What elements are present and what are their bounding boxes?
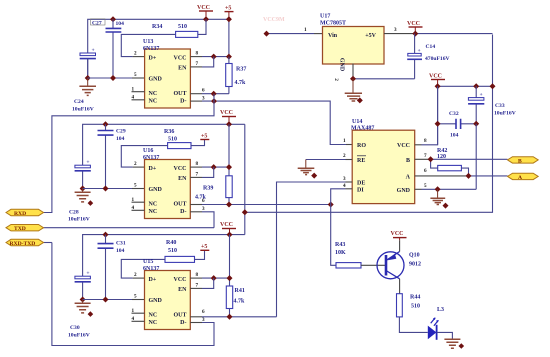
junction top rail at VCC [203,16,209,22]
wire C24 to GND rail [87,59,89,78]
svg-text:VCC: VCC [174,55,187,61]
svg-text:7: 7 [196,282,199,288]
junction OUT R39 bottom [226,202,232,208]
svg-text:2: 2 [134,272,137,278]
junction bottom rail at C31 [103,232,109,238]
svg-text:10uF16V: 10uF16V [494,111,516,117]
wire U15 EN riser [190,287,202,289]
regulator U17 MC7805T [304,14,397,82]
svg-text:104: 104 [116,248,125,254]
resistor R41 [226,286,245,317]
svg-text:NC: NC [149,312,158,318]
power flag +5 bottom [200,244,209,250]
svg-text:RO: RO [357,143,366,149]
junction VCC at C33 [473,83,479,89]
svg-text:9012: 9012 [409,262,421,268]
svg-text:7: 7 [424,153,427,159]
junction R42 B [428,156,434,162]
resistor R34 [152,19,206,37]
capacitor C29 [98,124,126,188]
wire U16 OUT to DI [190,204,202,206]
svg-text:R43: R43 [335,242,345,248]
svg-text:D+: D+ [149,55,157,61]
ground at RE [298,160,318,179]
svg-text:RXD-TXD: RXD-TXD [10,241,36,247]
svg-text:GND: GND [397,188,411,194]
svg-text:10uF16V: 10uF16V [72,107,94,113]
ground at LED [444,339,464,349]
svg-text:8: 8 [424,138,427,144]
transistor Q10 [377,252,421,279]
capacitor C14 electrolytic [407,34,449,79]
capacitor C28 electrolytic [68,160,91,223]
wire regulator input [267,33,315,35]
svg-text:C14: C14 [426,44,436,50]
svg-text:2: 2 [134,51,137,57]
wire U15 VCC pin8 [190,277,202,279]
svg-text:510: 510 [168,137,177,143]
svg-text:R40: R40 [166,240,176,246]
svg-text:VCC: VCC [429,74,442,80]
svg-text:6: 6 [202,309,205,315]
svg-text:GND: GND [339,58,345,72]
svg-text:VCC: VCC [391,231,404,237]
junction mid rail at C29 [103,121,109,127]
wire R44 to LED [399,317,427,333]
wire MAX487 VCC pin8 [415,144,422,146]
junction top rail at C27 [110,16,116,22]
svg-text:+5: +5 [201,134,207,140]
wire DE [346,181,353,183]
ground bottom stage [75,300,94,317]
svg-text:470uF16V: 470uF16V [425,56,450,62]
resistor R36 [164,129,205,149]
svg-text:+: + [480,92,483,98]
power flag VCC regulator [407,21,423,34]
svg-text:7: 7 [196,61,199,67]
resistor R40 [165,240,205,262]
wire emitter to VCC [399,240,401,251]
junction pin8 R37 top [226,54,232,60]
wire TXD net [44,227,215,229]
svg-text:R34: R34 [152,24,162,30]
svg-text:GND: GND [149,187,163,193]
svg-text:DI: DI [357,188,364,194]
svg-text:R36: R36 [164,129,174,135]
svg-text:120: 120 [437,154,446,160]
wire VCC mid rail [83,124,245,188]
svg-text:6N137: 6N137 [143,266,159,272]
svg-text:+5: +5 [201,244,207,250]
svg-text:2: 2 [134,161,137,167]
wire U13 OUT [190,93,202,95]
svg-text:+: + [86,271,89,277]
junction input end [264,31,270,37]
junction pin8 EN riser bottom [211,275,217,281]
svg-text:U17: U17 [320,14,330,20]
svg-text:MC7805T: MC7805T [320,21,346,27]
svg-text:10K: 10K [335,250,346,256]
svg-text:OUT: OUT [173,202,186,208]
svg-text:U13: U13 [143,39,153,45]
svg-text:GND: GND [149,77,163,83]
svg-text:NC: NC [149,201,158,207]
junction OUT riser [211,91,217,97]
wire VCC column into pin8 bottom [229,235,231,286]
ground under C24 [79,78,96,95]
wire U15 D- loop [190,322,202,324]
ground under regulator [345,79,363,104]
capacitor C31 [98,235,126,300]
junction VCC at trunk [490,83,496,89]
svg-text:VCC9M: VCC9M [263,17,285,23]
wire VCC bottom rail [83,235,245,300]
wire U13 VCC pin8 [190,56,202,58]
svg-text:8: 8 [196,51,199,57]
wire U13 D- to MAX487 RO [190,100,202,102]
svg-text:Q10: Q10 [409,253,420,259]
junction C29 bottom [103,186,109,192]
ground at MAX487 GND [430,189,448,208]
wire MAX487 GND pin5 [415,188,422,190]
svg-text:R37: R37 [236,67,246,73]
wire top VCC rail [88,19,229,78]
opto-coupler U15 [132,259,206,330]
wire regulator GND net [352,64,354,79]
svg-text:D-: D- [180,99,186,105]
NC stub pins U15 [132,313,145,321]
svg-text:7: 7 [196,171,199,177]
wire VCC distribution right [438,85,493,87]
svg-text:1: 1 [343,138,346,144]
svg-text:6N137: 6N137 [143,155,159,161]
svg-text:5: 5 [134,72,137,78]
svg-text:VCC: VCC [407,21,420,27]
svg-text:R44: R44 [410,295,420,301]
junction regulator gnd [350,76,356,82]
svg-text:U15: U15 [143,259,153,265]
wire U16 D+ loop [121,146,167,168]
wire VCC column C32 [437,86,439,145]
wire RXD net [44,94,215,213]
wire regulator output [384,33,415,35]
svg-text:TXD: TXD [14,226,26,232]
ic U14 MAX487 [343,119,427,204]
svg-text:5: 5 [424,183,427,189]
junction top rail corner +5 [226,16,232,22]
junction MAX GND [435,186,441,192]
junction C32 left [435,121,441,127]
svg-text:NC: NC [149,98,158,104]
svg-text:VCC: VCC [220,110,233,116]
svg-text:C32: C32 [449,111,459,117]
svg-text:3: 3 [394,27,397,33]
svg-text:EN: EN [178,176,187,182]
power flag VCC mid [220,110,236,124]
svg-text:510: 510 [411,304,420,310]
svg-text:6: 6 [424,168,427,174]
svg-text:5: 5 [134,183,137,189]
resistor R39 [195,176,232,205]
wire U16 GND [83,188,132,190]
LED L3 [428,307,444,340]
svg-text:10uF16V: 10uF16V [68,217,90,223]
power flag VCC top [197,5,213,19]
junction C24 bottom [85,75,91,81]
svg-text:104: 104 [116,21,125,27]
NC stub pins U16 [132,202,145,210]
power flag VCC max487 [429,74,445,87]
svg-text:3: 3 [202,206,205,212]
power flag VCC Q10 [391,231,407,240]
wire collector to R44 [399,279,401,294]
svg-text:510: 510 [168,248,177,254]
capacitor C32 [438,111,477,139]
svg-text:VCC: VCC [220,222,233,228]
svg-text:L3: L3 [437,307,444,313]
svg-text:D+: D+ [149,166,157,172]
wire U15 GND [83,299,132,301]
wire MAX487 A [415,175,469,177]
svg-text:D+: D+ [149,277,157,283]
capacitor C33 electrolytic [468,86,516,124]
wire U16 VCC pin8 [190,166,202,168]
svg-text:2: 2 [333,78,339,81]
svg-text:DE: DE [357,181,365,187]
wire output to trunk [415,33,492,35]
power flag +5 top [225,6,234,20]
svg-text:10uF16V: 10uF16V [68,333,90,339]
junction OUT R41 bottom [227,314,233,320]
wire MAX487 B [415,158,431,160]
wire DI [346,188,353,190]
svg-text:U14: U14 [352,119,362,125]
svg-text:8: 8 [196,161,199,167]
svg-text:NC: NC [149,91,158,97]
wire VCC column into pin8 [228,124,230,176]
junction pin8 R41 [227,275,233,281]
wire R43 to base [361,264,386,266]
svg-text:MAX487: MAX487 [351,126,374,132]
svg-text:4.7k: 4.7k [235,80,247,86]
svg-text:1: 1 [304,27,307,33]
connector flag B [508,157,539,165]
svg-text:GND: GND [149,298,163,304]
capacitor C30 electrolytic [68,271,91,339]
svg-text:R39: R39 [203,186,213,192]
svg-text:B: B [406,158,410,164]
wire U15 D+ loop [121,259,165,278]
svg-text:C27: C27 [92,20,102,26]
svg-text:OUT: OUT [173,313,186,319]
junction C27 bottom [110,75,116,81]
capacitor C27 [91,19,125,78]
svg-text:4.7k: 4.7k [234,299,246,305]
power flag VCC bottom [220,222,236,235]
svg-text:104: 104 [116,136,125,142]
svg-text:+: + [86,160,89,166]
svg-text:+5V: +5V [365,33,376,39]
power flag +5 mid [200,134,209,140]
svg-text:C24: C24 [74,99,84,105]
wire RE to ground [346,159,353,161]
svg-text:NC: NC [149,320,158,326]
resistor R37 [226,57,247,94]
wire U16 EN riser [190,176,202,178]
wire C33 column to GND [475,124,477,190]
svg-text:EN: EN [178,287,187,293]
junction pin8 R39 [226,164,232,170]
connector flag RXD-TXD [6,239,44,247]
svg-text:A: A [518,175,522,181]
svg-text:4: 4 [343,183,346,189]
junction D- RXD riser [211,98,217,104]
svg-text:C31: C31 [116,241,126,247]
svg-text:2: 2 [343,153,346,159]
svg-text:104: 104 [450,133,459,139]
junction bottom rail at VCC [227,232,233,238]
junction C28 bottom [80,186,86,192]
wire U13 GND [88,77,132,79]
svg-text:+: + [92,48,95,54]
svg-text:D-: D- [180,209,186,215]
svg-text:3: 3 [343,176,346,182]
svg-text:C30: C30 [70,325,80,331]
resistor R42 [431,148,469,176]
opto-coupler U13 [132,39,206,108]
svg-text:U16: U16 [143,148,153,154]
svg-text:VCC: VCC [197,5,210,11]
wire VCC trunk [245,35,493,213]
svg-text:A: A [406,174,411,180]
NC stub pins U13 [132,92,145,100]
junction R42 A [466,173,472,179]
capacitor C24 electrolytic [72,48,96,113]
wire U16 D- loop to TXD [190,211,202,213]
wire DI node to R43 [331,205,336,266]
svg-text:8: 8 [196,272,199,278]
wire RXD-TXD net [44,242,52,244]
wire U13 EN riser [190,66,202,68]
svg-text:VCC: VCC [397,143,410,149]
svg-text:5: 5 [134,294,137,300]
wire U13 D+ loop [121,34,175,56]
svg-text:6N137: 6N137 [143,46,159,52]
connector flag A [508,173,539,181]
svg-text:510: 510 [178,24,187,30]
svg-text:RE: RE [357,158,365,164]
svg-text:R41: R41 [235,288,245,294]
svg-text:B: B [518,158,522,164]
svg-text:C28: C28 [69,210,79,216]
svg-text:OUT: OUT [173,91,186,97]
junction C30 bottom [80,297,86,303]
junction pin8 EN riser [211,54,217,60]
svg-text:VCC: VCC [174,277,187,283]
svg-text:4.7k: 4.7k [195,195,207,201]
svg-text:RXD: RXD [14,211,26,217]
junction C32 right C33 bottom [473,121,479,127]
junction mid rail at VCC [226,121,232,127]
connector flag RXD [6,209,44,217]
svg-text:+5: +5 [225,6,231,12]
junction C31 bottom [103,297,109,303]
wire U15 OUT to DE riser [190,316,202,318]
ground mid stage [75,189,94,206]
wire LED to ground [437,332,453,339]
svg-text:+: + [418,48,421,54]
junction pin8 EN riser mid [211,164,217,170]
junction trunk riser [242,209,248,215]
svg-text:EN: EN [178,66,187,72]
junction VCC at 437 [435,83,441,89]
svg-text:VCC: VCC [174,166,187,172]
opto-coupler U16 [132,148,206,219]
connector flag TXD [6,225,44,233]
junction OUT DI riser [328,202,334,208]
wire VCC riser mid-to-bottom [244,124,246,234]
svg-text:Vin: Vin [328,33,338,39]
svg-text:6: 6 [202,88,205,94]
svg-text:D-: D- [180,320,186,326]
svg-text:NC: NC [149,209,158,215]
junction regulator output [412,31,418,37]
resistor R44 [397,294,421,317]
svg-text:C29: C29 [116,129,126,135]
svg-text:C33: C33 [495,103,505,109]
resistor R43 [335,242,361,268]
